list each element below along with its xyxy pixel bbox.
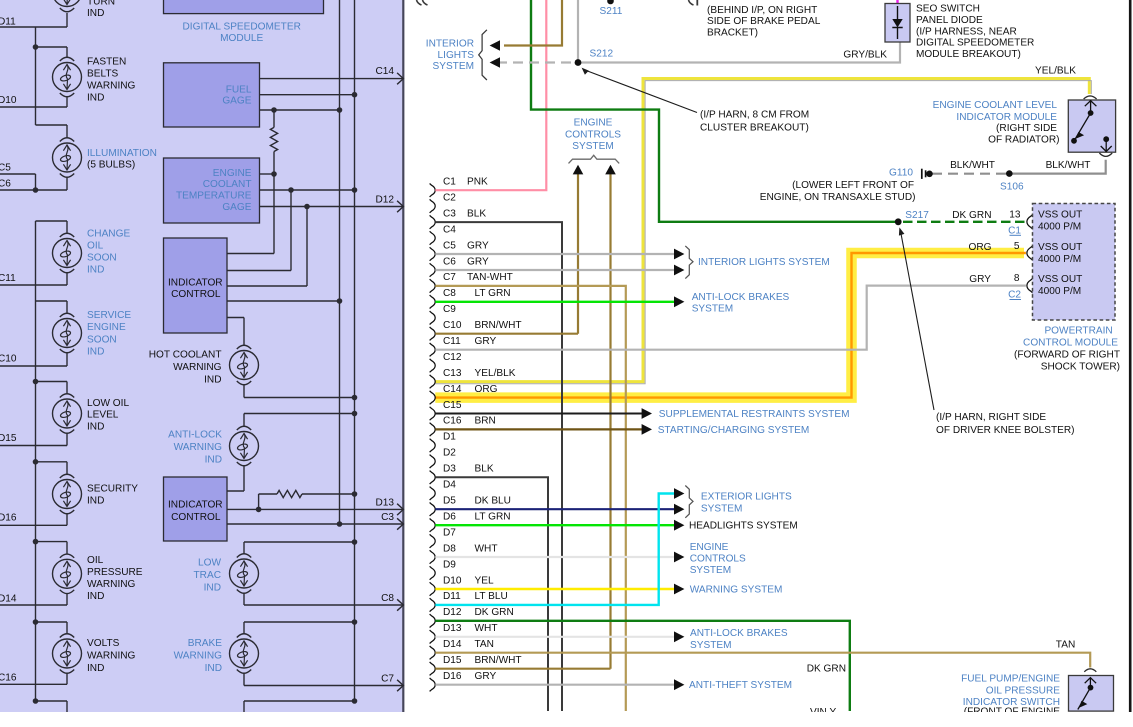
wire SECURITY bottom to D16 [0,514,67,526]
junction dot SECURITY top [33,459,39,465]
junction dot D13 resistor tap [256,507,262,513]
svg-text:OIL: OIL [87,555,104,566]
lamp FASTEN BELTS WARNING IND [53,57,82,97]
svg-text:D3: D3 [443,464,456,475]
svg-text:MODULE BREAKOUT): MODULE BREAKOUT) [916,49,1021,60]
svg-text:SIDE OF BRAKE PEDAL: SIDE OF BRAKE PEDAL [707,16,821,27]
svg-text:WARNING: WARNING [87,81,136,92]
arrow to SUPPLEMENTAL RESTRAINTS SYSTEM [642,408,652,419]
box POWERTRAIN CONTROL MODULE (dashed) [1033,204,1116,321]
dashed wire DK GRN S217 to PCM pin 13 [903,221,1026,223]
box INDICATOR CONTROL 2 [164,477,228,541]
pin arrow C7 [397,680,403,691]
label ANTI-LOCK BRAKES SYSTEM 2 [690,628,788,651]
junction dot C5/C6 [33,187,39,193]
wire C1 PNK [435,0,546,190]
wire ENGINE CONTROLS vertical 1 (C10 BRN/WHT) [577,174,579,334]
wire ECT pin2 branch to INDICATOR CONTROL pin B [227,190,291,271]
svg-text:LT GRN: LT GRN [475,288,511,299]
svg-text:C1: C1 [443,177,456,188]
svg-text:VSS OUT: VSS OUT [1038,242,1082,253]
svg-text:8: 8 [1014,273,1020,284]
connector pin D13 WHT [430,623,498,643]
arrow D6 HEADLIGHTS [674,520,684,531]
connector arc PCM pin 13 [1027,214,1033,229]
svg-text:YEL/BLK: YEL/BLK [475,368,516,379]
svg-text:HOT COOLANT: HOT COOLANT [149,350,222,361]
label TURN IND [87,0,115,19]
label C1 underlined [1008,225,1021,236]
svg-text:FASTEN: FASTEN [87,57,126,68]
label I/P HARN 8 CM note [700,110,809,134]
svg-text:C11: C11 [0,273,16,284]
svg-text:WHT: WHT [475,623,498,634]
connector pin C11 GRY [430,336,497,356]
connector pin C14 ORG [430,384,498,404]
svg-text:BLK/WHT: BLK/WHT [1046,160,1091,171]
svg-text:C1: C1 [1008,225,1021,236]
wire gray from top to S212 [577,0,579,63]
svg-text:WARNING: WARNING [174,442,223,453]
svg-text:SYSTEM: SYSTEM [690,565,732,576]
svg-text:C12: C12 [443,352,462,363]
connector pin C5 GRY [430,240,489,260]
connector pin C15 [430,400,462,420]
svg-text:VSS OUT: VSS OUT [1038,274,1082,285]
wire D5 DK BLU [435,508,674,510]
wire FUEL GAGE pin2 [260,94,355,96]
svg-text:IND: IND [87,663,104,674]
lamp OIL PRESSURE WARNING IND [53,554,82,594]
svg-text:GRY: GRY [969,274,991,285]
lamp LOW TRAC IND [230,554,259,594]
svg-text:SEO SWITCH: SEO SWITCH [916,4,980,15]
svg-text:4000 P/M: 4000 P/M [1038,254,1081,265]
svg-text:ENGINE: ENGINE [574,118,613,129]
svg-text:CONTROLS: CONTROLS [690,554,746,565]
svg-text:TAN: TAN [475,639,494,650]
junction dot HOT COOLANT bus B [352,395,358,401]
svg-text:D4: D4 [443,480,456,491]
svg-text:S212: S212 [590,48,614,59]
arrow D5 EXTERIOR LIGHTS lower [674,504,684,515]
svg-text:CONTROLS: CONTROLS [565,129,621,140]
wire ANTI-LOCK bottom to INDICATOR CONTROL 2 [227,466,244,492]
splice dot S212 [575,59,582,66]
wire resistor chain to INDICATOR CONTROL pin A [227,174,274,254]
connector arc module top [1084,96,1097,99]
svg-text:ENGINE: ENGINE [690,542,729,553]
connector pin C2 [430,192,457,212]
svg-text:GRY: GRY [475,671,497,682]
svg-text:(LOWER LEFT FRONT OF: (LOWER LEFT FRONT OF [792,180,914,191]
wire CHANGE OIL top [36,221,68,234]
svg-text:WHT: WHT [475,543,498,554]
svg-text:C10: C10 [0,354,17,365]
svg-text:C14: C14 [375,66,394,77]
label POWERTRAIN CONTROL MODULE [1014,326,1120,373]
wire ECT pin2 [260,189,355,191]
box SEO SWITCH PANEL DIODE [885,4,910,43]
svg-text:WARNING SYSTEM: WARNING SYSTEM [690,585,783,596]
svg-text:LOW: LOW [198,558,221,569]
wire SECURITY top [36,462,68,475]
svg-text:D15: D15 [0,433,17,444]
wire ECT pin3 branch to INDICATOR CONTROL pin C [227,207,307,287]
svg-text:DK GRN: DK GRN [475,607,514,618]
connector arc module bottom [1099,153,1112,156]
svg-text:BRACKET): BRACKET) [707,28,758,39]
svg-text:IND: IND [87,496,104,507]
junction dot ECT pin2 mid [288,187,294,193]
svg-text:HEADLIGHTS SYSTEM: HEADLIGHTS SYSTEM [689,521,798,532]
pin arrow C8 [397,599,403,610]
wire LOW TRAC bottom to C8 [244,593,403,605]
svg-text:(I/P HARN, 8 CM FROM: (I/P HARN, 8 CM FROM [700,110,809,121]
svg-text:ORG: ORG [969,242,992,253]
junction dot next lamp column2 [352,698,358,704]
brace ENGINE CONTROLS top [569,155,620,163]
box INDICATOR CONTROL 1 [164,238,228,333]
wire D6 LT GRN [435,524,674,526]
svg-text:DIGITAL SPEEDOMETER: DIGITAL SPEEDOMETER [183,22,301,33]
connector pin C4 [430,224,457,244]
svg-text:CONTROL: CONTROL [171,289,221,300]
wire S212 to SEO diode GRY [578,42,900,63]
connector pin C8 LT GRN [430,288,511,308]
svg-text:S217: S217 [905,210,929,221]
svg-text:POWERTRAIN: POWERTRAIN [1044,326,1112,337]
svg-text:LT GRN: LT GRN [475,512,511,523]
wire VOLTS top [36,622,68,634]
svg-text:ILLUMINATION: ILLUMINATION [87,148,157,159]
svg-text:C9: C9 [443,304,456,315]
svg-text:PRESSURE: PRESSURE [87,567,143,578]
svg-text:INTERIOR: INTERIOR [426,39,474,50]
svg-text:C6: C6 [0,179,11,190]
connector pin D5 DK BLU [430,496,511,516]
svg-text:(I/P HARNESS, NEAR: (I/P HARNESS, NEAR [916,26,1017,37]
svg-text:ORG: ORG [475,384,498,395]
label ILLUMINATION (5 BULBS) [87,148,157,170]
svg-text:LIGHTS: LIGHTS [438,50,475,61]
wire BRAKE WARNING top to bus B [244,622,355,634]
label ANTI-LOCK BRAKES SYSTEM 1 [692,292,790,315]
svg-text:SYSTEM: SYSTEM [690,640,732,651]
svg-text:C14: C14 [443,384,462,395]
arrow C6 INTERIOR LIGHTS [674,265,684,276]
wire INDICATOR CONTROL 2 pin C3 [227,523,403,525]
svg-text:(5 BULBS): (5 BULBS) [87,159,135,170]
svg-text:IND: IND [87,8,104,19]
right sheet edge wire [1129,0,1132,712]
wire D11 LT BLU [435,494,674,605]
black stripe of YEL/BLK wire [435,81,1091,384]
arrow C8 ANTI-LOCK BRAKES [674,296,684,307]
connector pin D8 WHT [430,543,498,563]
svg-text:D10: D10 [443,575,462,586]
wire ECT pin1 [260,173,275,175]
label C2 underlined [1008,290,1021,301]
svg-text:LOW OIL: LOW OIL [87,398,129,409]
wire FUEL GAGE pin1 to C14 [260,78,403,80]
junction dot ECT pin3 mid [304,204,310,210]
wire OIL PRESSURE top [36,542,68,555]
svg-text:ANTI-LOCK BRAKES: ANTI-LOCK BRAKES [692,292,790,303]
bus wire left column upper segment [35,27,37,125]
wire C16 BRN [435,428,642,430]
wire FASTEN BELTS top [36,47,68,58]
junction dot resistor top [271,107,277,113]
wire C6 GRY [435,269,674,271]
wire next lamp top column1 [36,701,68,712]
svg-text:C11: C11 [443,336,461,347]
wire D12 DK GRN [435,621,850,711]
svg-text:TAN: TAN [1056,640,1075,651]
svg-text:GRY: GRY [467,240,489,251]
switch symbol inside module [1071,101,1112,152]
wire INDICATOR CONTROL pin D to bus A [227,300,340,302]
svg-text:BELTS: BELTS [87,69,118,80]
label EXTERIOR LIGHTS SYSTEM [701,492,792,515]
svg-text:C2: C2 [443,192,456,203]
connector pin D16 GRY [430,671,497,691]
svg-text:PANEL DIODE: PANEL DIODE [916,15,983,26]
connector pin D15 BRN/WHT [430,655,522,675]
junction dot R2 bus B [352,491,358,497]
svg-text:TEMPERATURE: TEMPERATURE [176,191,252,202]
junction dot ECT pin2 bus [352,187,358,193]
svg-text:PNK: PNK [467,177,488,188]
junction dot FASTEN top [33,44,39,50]
svg-text:4000 P/M: 4000 P/M [1038,222,1081,233]
svg-text:(FORWARD OF RIGHT: (FORWARD OF RIGHT [1014,350,1120,361]
svg-text:VOLTS: VOLTS [87,638,120,649]
arrow D13 ANTI-LOCK BRAKES 2 [674,631,684,642]
svg-text:IND: IND [204,583,221,594]
svg-text:WARNING: WARNING [87,579,136,590]
svg-text:MODULE: MODULE [220,33,263,44]
svg-text:GRY/BLK: GRY/BLK [843,50,887,61]
svg-text:C3: C3 [443,208,456,219]
vertical wire module bus B (x=354.5) [354,0,356,701]
svg-text:ANTI-LOCK: ANTI-LOCK [168,430,222,441]
junction dot LOW TRAC bus B [352,539,358,545]
connector arc fuel pump switch top [1084,669,1096,672]
svg-text:ANTI-THEFT SYSTEM: ANTI-THEFT SYSTEM [689,680,792,691]
connector stub marks top middle [689,0,698,6]
connector arc PCM pin 5 [1027,246,1033,261]
wire LOW OIL bottom to D15 [0,433,67,446]
brace INTERIOR LIGHTS left [479,30,487,80]
label ANTI-LOCK WARNING IND [168,430,222,466]
svg-text:D10: D10 [0,95,17,106]
svg-text:D11: D11 [443,591,461,602]
svg-text:BRN/WHT: BRN/WHT [475,320,522,331]
svg-text:WARNING: WARNING [87,651,136,662]
svg-text:LT BLU: LT BLU [475,591,508,602]
wire D3 BLK [435,477,548,711]
svg-text:BRAKE: BRAKE [188,638,222,649]
wire C5 [0,174,36,190]
junction dot BRAKE bus B [352,619,358,625]
wire C3 BLK [435,222,562,711]
svg-text:ENGINE COOLANT LEVEL: ENGINE COOLANT LEVEL [933,100,1058,111]
wire BLK/WHT module to S106 [1009,160,1105,174]
svg-text:DK GRN: DK GRN [807,664,846,675]
brace INTERIOR LIGHTS right [685,246,693,279]
arrow to STARTING/CHARGING SYSTEM [642,424,652,435]
dashed wire BLK/WHT S106 to G110 [932,173,1009,175]
box FUEL GAGE [164,63,260,127]
svg-text:GAGE: GAGE [222,202,251,213]
panel divider border [402,0,404,712]
wire INDICATOR CONTROL 1 to HOT COOLANT lamp [227,318,244,346]
wire C10 BRN/WHT [435,333,578,335]
connector arc PCM pin 8 [1027,278,1033,293]
box U1 DIGITAL SPEEDOMETER MODULE [164,0,324,14]
label OIL PRESSURE WARNING IND [87,555,143,602]
instrument cluster panel background [0,0,402,712]
wire green engine controls to S217 [531,0,898,222]
junction dot next lamp column1 [33,698,39,704]
svg-text:INDICATOR MODULE: INDICATOR MODULE [956,112,1057,123]
svg-text:WARNING: WARNING [174,651,223,662]
connector pin C12 [430,352,462,372]
svg-text:COOLANT: COOLANT [203,179,252,190]
wire BRAKE bottom to C7 [244,673,403,686]
lamp HOT COOLANT WARNING IND [230,345,259,385]
arrowhead up ENGINE CONTROLS 2 [605,165,616,175]
svg-text:D11: D11 [0,17,16,28]
wire C8 LT GRN [435,301,674,303]
wire ANTI-LOCK WARNING top to bus B [244,414,355,427]
svg-text:INDICATOR: INDICATOR [168,278,223,289]
switch symbol inside fuel pump box [1078,678,1096,710]
svg-text:SERVICE: SERVICE [87,310,131,321]
lamp LOW OIL LEVEL IND [53,394,82,434]
svg-text:S106: S106 [1000,182,1024,193]
svg-text:(I/P HARN, RIGHT SIDE: (I/P HARN, RIGHT SIDE [936,412,1046,423]
svg-text:OF DRIVER KNEE BOLSTER): OF DRIVER KNEE BOLSTER) [936,425,1075,436]
callout line to S217 [899,227,934,410]
connector pin D11 LT BLU [430,591,508,611]
svg-text:VSS OUT: VSS OUT [1038,210,1082,221]
wire D16 GRY [435,684,674,686]
svg-text:4000 P/M: 4000 P/M [1038,286,1081,297]
label ENGINE COOLANT TEMPERATURE GAGE [176,168,252,213]
svg-text:GRY: GRY [467,256,489,267]
connector pin C1 PNK [430,177,488,197]
connector pin D1 [430,432,457,452]
svg-text:C16: C16 [443,416,462,427]
connector pin C6 GRY [430,256,489,276]
svg-text:TRAC: TRAC [194,570,221,581]
svg-text:D14: D14 [0,594,17,605]
wire SERVICE bottom to C10 [0,353,67,367]
label LOWER LEFT FRONT note [760,180,916,203]
label HOT COOLANT WARNING IND [149,350,222,386]
wire D15 BRN/WHT [435,668,610,670]
label INDICATOR CONTROL 2 [168,499,223,523]
svg-text:D14: D14 [443,639,462,650]
label ENGINE CONTROLS SYSTEM right [690,542,746,576]
svg-text:C7: C7 [443,272,456,283]
svg-text:IND: IND [205,455,222,466]
wire next lamp top column2 [244,701,355,712]
svg-text:FUEL PUMP/ENGINE: FUEL PUMP/ENGINE [961,674,1060,685]
svg-text:IND: IND [87,591,104,602]
svg-text:IND: IND [87,422,104,433]
connector pin C13 YEL/BLK [430,368,516,388]
diode D1 symbol [892,6,902,39]
wire LOW TRAC top to bus B [244,542,355,554]
label FUEL GAGE [222,85,252,107]
arrowhead up ENGINE CONTROLS 1 [573,165,584,175]
svg-text:SYSTEM: SYSTEM [701,504,743,515]
highlight band C14 ORG circuit [435,253,1024,398]
resistor R1 vertical [273,110,275,127]
label FASTEN BELTS WARNING IND [87,57,136,104]
svg-text:D1: D1 [443,432,456,443]
svg-text:IND: IND [87,265,104,276]
brace EXTERIOR LIGHTS [685,486,693,518]
svg-text:D5: D5 [443,496,456,507]
label CHANGE OIL SOON IND [87,229,130,276]
box ENGINE COOLANT TEMPERATURE GAGE [164,158,260,223]
label I/P HARN RIGHT SIDE note [936,412,1075,436]
junction dot VOLTS top [33,619,39,625]
connector stub marks top left [417,0,428,5]
connector pin C9 [430,304,457,324]
svg-text:IND: IND [205,663,222,674]
svg-text:C8: C8 [443,288,456,299]
svg-text:DIGITAL SPEEDOMETER: DIGITAL SPEEDOMETER [916,38,1034,49]
svg-text:OIL PRESSURE: OIL PRESSURE [986,686,1060,697]
svg-text:SYSTEM: SYSTEM [432,61,474,72]
svg-text:C5: C5 [0,163,11,174]
lamp SECURITY IND [53,474,82,514]
connector pin D7 [430,527,457,547]
label VSS OUT 4000 P/M pin5 [1038,242,1082,265]
label INTERIOR LIGHTS SYSTEM left [426,39,474,73]
svg-text:ENGINE: ENGINE [87,322,126,333]
svg-text:BLK/WHT: BLK/WHT [950,160,995,171]
svg-text:D13: D13 [443,623,462,634]
wire C11 GRY [435,286,1026,350]
svg-text:BLK: BLK [475,464,494,475]
svg-text:D16: D16 [0,513,17,524]
wire HOT COOLANT bottom to bus B [244,385,355,398]
svg-text:5: 5 [1014,241,1020,252]
wire C5 GRY [435,253,674,255]
svg-text:D8: D8 [443,543,456,554]
junction dot resistor bottom / ECT pin1 [271,171,277,177]
lamp TURN IND (clipped at top) [53,0,82,12]
svg-text:FUEL: FUEL [226,85,252,96]
splice dot S106 [1006,170,1013,177]
svg-text:13: 13 [1009,209,1021,220]
wire ECT pin3 to D12 [260,206,403,208]
svg-text:OIL: OIL [87,241,104,252]
splice dot S211 [607,0,614,4]
label VSS OUT 4000 P/M pin8 [1038,274,1082,297]
svg-text:(RIGHT SIDE: (RIGHT SIDE [996,123,1057,134]
lamp CHANGE OIL SOON IND [53,233,82,273]
label INDICATOR CONTROL 1 [168,278,223,301]
svg-text:LEVEL: LEVEL [87,410,119,421]
svg-text:C8: C8 [381,593,394,604]
